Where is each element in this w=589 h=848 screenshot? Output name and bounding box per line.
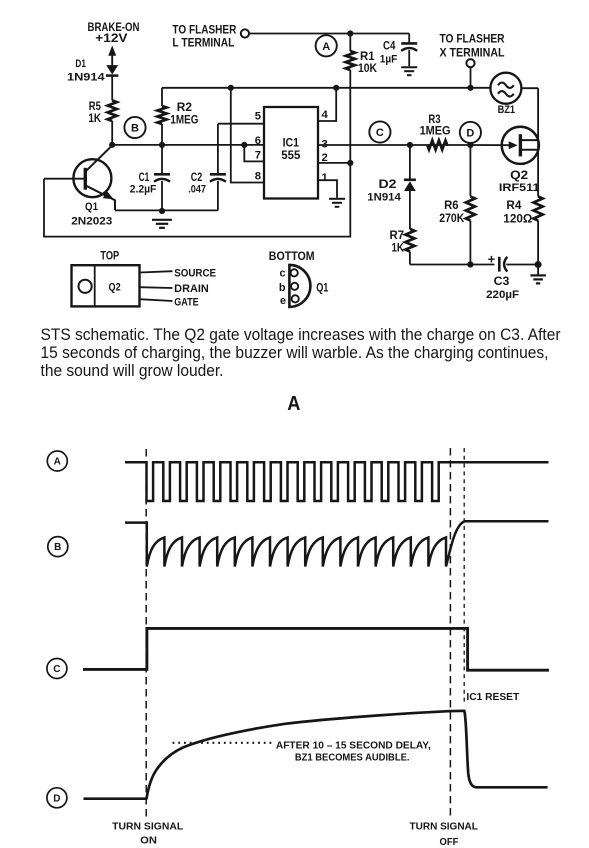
svg-text:c: c xyxy=(279,267,285,279)
svg-text:BZ1: BZ1 xyxy=(498,104,515,116)
junction R6 bottom xyxy=(467,261,473,267)
svg-text:7: 7 xyxy=(255,149,261,161)
waveform label C xyxy=(47,659,67,679)
svg-text:.047: .047 xyxy=(188,183,206,195)
svg-text:Q1: Q1 xyxy=(85,201,98,213)
wire R6 to bottom node xyxy=(469,221,471,265)
capacitor C1 2.2uF xyxy=(154,174,170,181)
node A xyxy=(316,35,337,56)
junction R5-Q1 collector-pin6 wire xyxy=(109,142,115,148)
svg-text:TO FLASHER: TO FLASHER xyxy=(172,25,237,37)
svg-text:GATE: GATE xyxy=(174,296,199,308)
svg-text:TO FLASHER: TO FLASHER xyxy=(440,33,506,45)
resistor R1 10K xyxy=(346,51,355,70)
wire node D to R6 xyxy=(469,145,471,197)
svg-text:6: 6 xyxy=(255,135,261,147)
wire L line corner down to C4 xyxy=(408,34,410,43)
wire C1 to ground wire xyxy=(161,181,163,210)
wire node C to D2 xyxy=(409,145,411,180)
wire Q1 emitter to C2 bottom xyxy=(115,209,218,211)
svg-text:1MEG: 1MEG xyxy=(170,115,198,127)
svg-text:IRF511: IRF511 xyxy=(499,182,540,194)
wire pin7 hook xyxy=(244,145,264,162)
junction rail to pin 8 branch xyxy=(228,85,234,91)
op-amp timer IC1 555 body xyxy=(264,107,318,199)
junction node D wire / R6 xyxy=(467,142,473,148)
svg-text:1K: 1K xyxy=(88,113,101,125)
waveform B sawtooth xyxy=(125,521,549,566)
Q1 package pin e xyxy=(292,295,299,302)
ground below C4 xyxy=(401,67,417,75)
svg-text:Q2: Q2 xyxy=(510,170,528,182)
resistor R6 270K xyxy=(466,197,475,221)
buzzer BZ1 xyxy=(490,73,521,104)
svg-text:1K: 1K xyxy=(392,242,405,254)
svg-text:+12V: +12V xyxy=(95,33,128,45)
svg-text:R6: R6 xyxy=(444,200,459,212)
resistor R5 1K xyxy=(108,100,117,121)
svg-text:B: B xyxy=(54,542,61,553)
wire node B to C1 xyxy=(161,145,163,174)
svg-text:Q2: Q2 xyxy=(109,282,121,294)
wire R1 to pin 2 trigger (crosses rail and pin3 wire) xyxy=(349,70,351,163)
svg-text:220µF: 220µF xyxy=(486,289,519,301)
svg-text:C3: C3 xyxy=(494,276,510,288)
wire pin 3 output to node D xyxy=(318,144,470,146)
svg-text:D: D xyxy=(466,127,474,139)
transistor Q2 IRF511 xyxy=(470,127,538,164)
capacitor C3 220uF xyxy=(499,257,507,272)
node C xyxy=(369,121,390,142)
svg-text:D1: D1 xyxy=(75,58,86,70)
svg-text:D2: D2 xyxy=(379,179,397,191)
svg-text:SOURCE: SOURCE xyxy=(174,268,216,280)
wire R2 to node B wire xyxy=(161,124,163,145)
terminal circle L xyxy=(241,29,249,37)
svg-text:2N2023: 2N2023 xyxy=(71,216,112,228)
svg-text:R7: R7 xyxy=(390,230,405,242)
dashed line IC1 reset xyxy=(463,448,465,703)
svg-text:270K: 270K xyxy=(439,213,465,225)
wire pin 5 to C2 branch xyxy=(218,123,264,125)
wire top rail corner to R2 xyxy=(161,88,163,106)
svg-text:C: C xyxy=(376,127,384,139)
resistor R3 1MEG xyxy=(427,140,447,149)
ground below C1 xyxy=(152,220,172,228)
wire rail to pin 8 xyxy=(231,88,264,183)
wire node B to IC1 pin 6 xyxy=(112,144,264,146)
svg-text:STS schematic. The Q2 gate vol: STS schematic. The Q2 gate voltage incre… xyxy=(41,326,562,344)
svg-text:X TERMINAL: X TERMINAL xyxy=(440,48,505,60)
svg-text:the sound will grow louder.: the sound will grow louder. xyxy=(41,362,224,380)
node D xyxy=(460,122,481,143)
resistor R4 120ohm xyxy=(534,197,543,221)
resistor R7 1K xyxy=(405,229,414,252)
wire C3 to ground corner xyxy=(506,264,538,266)
junction pin6-pin7 tie xyxy=(241,142,247,148)
svg-text:D: D xyxy=(53,793,60,804)
svg-text:AFTER 10 – 15 SECOND DELAY,: AFTER 10 – 15 SECOND DELAY, xyxy=(276,740,431,751)
wire C4 to ground xyxy=(408,50,410,66)
wire Q2 drain vertical xyxy=(537,88,539,196)
wire C2 to ground wire xyxy=(217,181,219,210)
svg-text:TOP: TOP xyxy=(100,250,119,262)
Q2 package outline xyxy=(72,265,140,306)
waveform C gate pulse xyxy=(83,628,549,670)
svg-text:e: e xyxy=(280,295,286,307)
wire L terminal to C4 corner xyxy=(249,33,409,35)
waveform label B xyxy=(48,537,68,557)
wire BZ1 to drain rail xyxy=(521,87,538,89)
svg-text:b: b xyxy=(279,282,286,294)
svg-text:C: C xyxy=(53,664,60,675)
svg-text:R1: R1 xyxy=(360,51,375,63)
diode D2 1N914 xyxy=(404,180,416,229)
svg-text:15 seconds of charging, the bu: 15 seconds of charging, the buzzer will … xyxy=(41,344,549,362)
wire pin 1 to ground xyxy=(318,180,337,198)
svg-text:R2: R2 xyxy=(177,102,192,114)
Q2 package pin leads xyxy=(140,271,173,301)
svg-text:120Ω: 120Ω xyxy=(503,213,532,225)
dashed line turn-signal-on xyxy=(145,449,147,817)
svg-text:A: A xyxy=(287,393,301,415)
wire X terminal down to rail xyxy=(470,67,472,88)
svg-text:1MEG: 1MEG xyxy=(420,125,451,137)
dashed line turn-signal-off xyxy=(449,448,451,819)
wire pin 4 to rail xyxy=(318,88,336,121)
svg-text:Q1: Q1 xyxy=(316,282,329,294)
junction rail at X terminal xyxy=(467,85,473,91)
junction ground wire at C1 xyxy=(159,208,165,214)
svg-text:+: + xyxy=(488,251,496,266)
svg-text:1N914: 1N914 xyxy=(367,192,401,204)
ground at pin 1 xyxy=(329,199,345,207)
svg-text:4: 4 xyxy=(322,109,329,121)
wire R5 to node B junction xyxy=(111,121,113,145)
junction R1 top xyxy=(347,30,353,36)
Q1 package pin b xyxy=(291,283,298,290)
svg-text:1N914: 1N914 xyxy=(67,72,105,84)
svg-text:BOTTOM: BOTTOM xyxy=(269,251,315,263)
Q1 package outline (TO-92 bottom) xyxy=(289,265,310,307)
input arrow from +12V xyxy=(108,46,116,66)
diode D1 1N914 xyxy=(106,65,118,100)
svg-text:1: 1 xyxy=(322,172,328,184)
dotted delay threshold line xyxy=(173,742,274,744)
wire R7 to bottom node xyxy=(409,252,411,265)
wire R4 to ground xyxy=(537,221,539,276)
waveform A pulse train xyxy=(125,462,549,501)
svg-text:TURN SIGNAL: TURN SIGNAL xyxy=(410,821,478,832)
wire pin5 corner down to C2 xyxy=(217,124,219,174)
svg-text:DRAIN: DRAIN xyxy=(174,283,209,295)
svg-text:TURN SIGNAL: TURN SIGNAL xyxy=(112,821,183,832)
svg-text:10K: 10K xyxy=(358,63,378,75)
junction node C wire / D2 xyxy=(407,142,413,148)
waveform label A xyxy=(47,451,67,471)
svg-text:2.2µF: 2.2µF xyxy=(130,183,157,195)
svg-text:A: A xyxy=(54,457,61,468)
junction rail at pin4 branch xyxy=(333,85,339,91)
svg-text:OFF: OFF xyxy=(440,837,459,848)
capacitor C4 1uF xyxy=(401,43,417,50)
svg-text:L TERMINAL: L TERMINAL xyxy=(172,37,234,49)
wire V+ top rail xyxy=(162,87,491,89)
svg-text:555: 555 xyxy=(281,148,300,162)
svg-text:8: 8 xyxy=(255,171,261,183)
node B xyxy=(124,117,145,138)
svg-text:5: 5 xyxy=(255,111,261,123)
svg-text:BZ1 BECOMES AUDIBLE.: BZ1 BECOMES AUDIBLE. xyxy=(295,753,410,764)
svg-text:A: A xyxy=(322,41,330,53)
waveform D charge curve xyxy=(84,711,548,799)
svg-text:C4: C4 xyxy=(383,41,396,53)
Q1 package pin c xyxy=(291,269,298,276)
wire pin 2 to trigger line xyxy=(318,162,350,164)
capacitor C2 .047 xyxy=(210,174,226,181)
svg-text:R4: R4 xyxy=(506,200,522,212)
svg-text:ON: ON xyxy=(140,835,157,846)
junction C3-R4-ground xyxy=(535,261,542,268)
transistor Q1 2N2023 xyxy=(44,145,115,210)
svg-text:C1: C1 xyxy=(139,172,150,184)
wire Q1 base down-left xyxy=(44,163,350,237)
resistor R2 1MEG xyxy=(157,106,166,124)
svg-text:C2: C2 xyxy=(191,172,202,184)
waveform label D xyxy=(47,788,67,808)
svg-text:B: B xyxy=(131,122,139,134)
junction R2-C1 on node B wire xyxy=(159,142,165,148)
ground below R4/C3 xyxy=(530,275,546,283)
junction pin 2 trigger xyxy=(347,160,353,166)
svg-text:R5: R5 xyxy=(89,101,101,113)
svg-text:1µF: 1µF xyxy=(380,54,398,66)
wire bottom node to C3 xyxy=(410,264,495,266)
terminal circle X xyxy=(466,59,474,67)
svg-text:IC1 RESET: IC1 RESET xyxy=(466,692,519,703)
